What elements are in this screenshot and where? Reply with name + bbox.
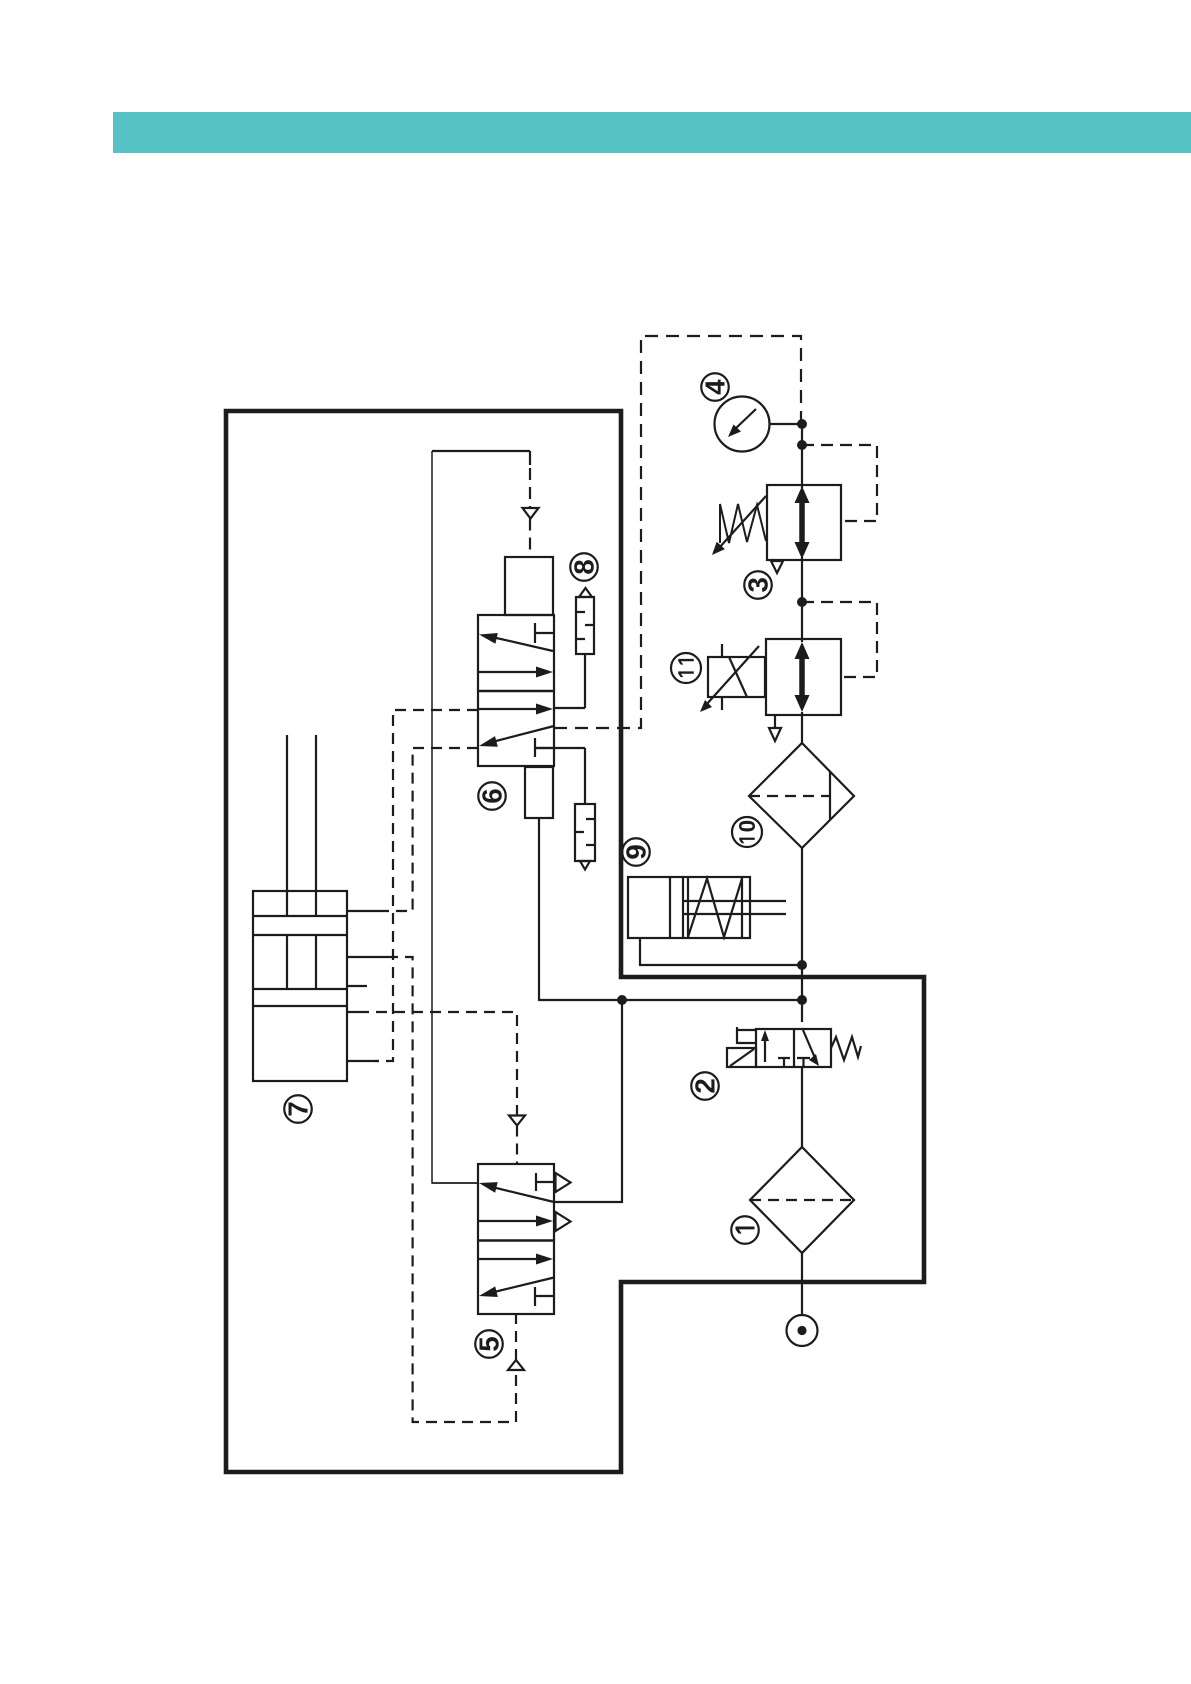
- cylinder 7 pistons: [253, 916, 347, 1006]
- valve 11 vent: [769, 715, 781, 741]
- wire to valve6 pilot (top): [432, 450, 530, 452]
- valve 5 top-cell blocked port: [536, 1173, 554, 1191]
- label 11: [671, 653, 701, 683]
- cylinder 7 rods: [287, 735, 316, 989]
- system boundary (thick outline): [226, 411, 924, 1472]
- wire main supply line: [801, 424, 803, 1315]
- pilot line A: valve6 to cylinder bottom port (dashed): [375, 710, 478, 1061]
- label 3: [744, 571, 772, 599]
- regulator 3 pilot feedback (dashed): [802, 445, 877, 521]
- label 6: [478, 782, 506, 810]
- teal header bar: [113, 112, 1191, 153]
- valve 5 pilot triangle second: [556, 1212, 571, 1231]
- valve 2 left-cell arrow: [761, 1030, 769, 1062]
- filter 10 with drain: [749, 743, 854, 848]
- wire from switch 9 to main line: [640, 938, 802, 965]
- label 8: [570, 553, 598, 581]
- gauge 4: [715, 397, 770, 452]
- flow control 8a: [554, 588, 594, 708]
- valve 2 right-cell arrow: [803, 1030, 819, 1066]
- valve 6 pilot cap: [505, 557, 553, 615]
- valve 2 manual actuator: [727, 1027, 756, 1067]
- valve 6 top-cell straight arrow: [479, 667, 553, 678]
- valve 2 right-cell blocked port: [797, 1058, 810, 1067]
- valve 2 left-cell blocked port: [778, 1058, 790, 1067]
- solenoid of valve 11: [708, 644, 765, 710]
- label 5: [475, 1330, 503, 1358]
- valve 6 body: [478, 615, 554, 766]
- valve 2 body: [756, 1029, 831, 1067]
- regulator 3 double arrow: [795, 486, 810, 559]
- label 1: [731, 1216, 759, 1244]
- valve 5 top-cell straight arrow: [479, 1216, 553, 1227]
- pilot line C: cylinder port2 to valve5 bottom (dashed): [387, 957, 524, 1422]
- wire gauge to main line: [770, 423, 803, 425]
- label 9: [622, 838, 650, 866]
- node dots on main line: [617, 419, 807, 1005]
- wire into valve 5 left port: [432, 1182, 478, 1184]
- pilot line B: valve6 to cylinder port1 (dashed): [386, 748, 478, 911]
- valve 5 pilot triangle top: [556, 1173, 571, 1192]
- valve 11 pilot feedback (dashed): [802, 602, 877, 677]
- valve 6 top-cell diagonal arrow: [479, 633, 553, 651]
- valve 5 body: [478, 1164, 554, 1314]
- valve 5 top-cell diagonal arrow: [479, 1182, 554, 1202]
- valve 11 double arrow: [795, 642, 810, 712]
- valve 6 bottom cap: [525, 767, 553, 818]
- pilot loop valve6 to main line (dashed): [554, 336, 801, 728]
- filter 1: [750, 1147, 854, 1253]
- pilot line into valve6 cap (dashed with arrow): [523, 451, 539, 557]
- regulator 3 spring: [720, 504, 766, 543]
- wire valve6 bottom cap to node: [539, 818, 622, 1000]
- wire node row y=1000: [622, 999, 802, 1001]
- label 10: [732, 817, 762, 847]
- flow control 8b: [535, 748, 595, 870]
- source (compressed air supply): [787, 1315, 818, 1346]
- long pilot wire from valve 5: [432, 451, 478, 1183]
- valve 6 bottom-cell straight arrow: [479, 704, 553, 715]
- wire node down to valve 5 right port: [554, 1000, 622, 1202]
- valve 5 bottom-cell diagonal arrow: [479, 1278, 554, 1298]
- label 4: [701, 373, 729, 401]
- cylinder port stubs: [347, 911, 387, 1061]
- valve 11 body: [766, 639, 841, 715]
- valve 11 adjust arrow: [700, 646, 759, 712]
- valve 6 bottom-cell blocked port: [535, 738, 554, 757]
- valve 5 bottom-cell blocked port: [535, 1287, 554, 1306]
- cylinder 7 body: [253, 891, 347, 1081]
- regulator 3 vent: [771, 561, 783, 573]
- regulator 3 body: [767, 485, 841, 560]
- valve 2 return spring: [831, 1037, 861, 1060]
- pilot line D: cylinder port4 to valve5 top (dashed): [358, 1012, 525, 1164]
- regulator 3 adjust arrow: [712, 496, 766, 555]
- valve 6 bottom-cell diagonal arrow: [479, 726, 554, 747]
- wire dashed stub above valve 2: [801, 1013, 803, 1029]
- pressure switch 9: [628, 877, 786, 938]
- label 2: [691, 1072, 719, 1100]
- label 7: [284, 1095, 312, 1123]
- valve 5 bottom-cell straight arrow: [479, 1254, 553, 1265]
- valve 6 top-cell blocked port: [535, 623, 554, 643]
